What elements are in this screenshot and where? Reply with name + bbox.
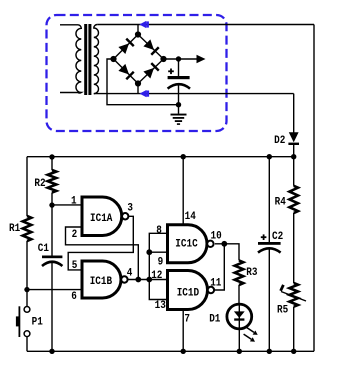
svg-text:IC1C: IC1C [175,239,198,251]
resistor R2 [48,170,57,193]
capacitor C2 [258,242,281,351]
wire: secondary bottom / line to D2 [94,93,294,95]
NAND gate IC1D [168,271,215,310]
wire: pins 8,9 tie [149,233,167,279]
svg-text:5: 5 [72,260,78,272]
wire: bridge minus route to ground node [107,59,179,105]
node: pin 9 junction [146,249,152,255]
svg-text:4: 4 [127,267,133,279]
wire: positive top rail [27,156,294,158]
wire: R5 bottom lead [293,307,295,352]
svg-text:C1: C1 [38,243,50,255]
wire: R3 to LED [238,285,240,305]
node: cap top junction [176,56,181,61]
wire: R2 bottom lead to junction [51,193,53,206]
svg-text:R4: R4 [275,197,287,209]
svg-text:9: 9 [158,257,164,269]
resistor R4 [289,186,298,213]
wire: R4 top lead [293,157,295,186]
wire: R2 top lead [51,157,53,170]
bridge diode bottom-right [143,62,159,78]
NAND gate IC1C [168,225,214,263]
LED D1 [227,304,252,329]
blue arrow marker on top wire [139,21,149,28]
blue arrow marker on bottom wire [140,90,150,97]
svg-text:13: 13 [155,300,167,312]
node: output row junctions [135,277,141,283]
trimmer R5 wiper arrow [281,285,306,301]
node: bridge corners [135,31,141,37]
wire: IC1A output pin 3 [68,216,133,270]
wire: left vertical upper [26,157,28,216]
capacitor C3 filter (plus sign) [168,70,174,72]
node: R1/P1/pin6 junction [24,287,29,292]
wire: pin 14 Vcc [182,157,184,225]
svg-text:2: 2 [72,229,78,241]
transformer T1 core [84,24,87,95]
svg-text:D2: D2 [274,135,285,147]
wire: pin 7 ground [182,310,184,352]
wire: secondary top / AC line to right edge [97,24,314,26]
wire: pin 1 input [52,204,82,206]
capacitor C3 filter [168,59,190,105]
bridge diode bottom-left [118,64,134,80]
NAND gate IC1A [82,197,128,236]
wire: pin 2 feedback route [66,227,139,280]
svg-text:P1: P1 [32,317,44,329]
transformer T1 primary winding [60,25,81,93]
svg-text:10: 10 [211,230,222,242]
svg-text:C2: C2 [272,231,283,243]
svg-text:IC1D: IC1D [177,287,200,299]
resistor R3 [235,260,244,285]
wire: bridge top corner stub [137,25,139,35]
resistor R1 [23,216,32,241]
wire: pin 13 tie [149,280,167,300]
svg-text:1: 1 [71,196,77,208]
wire: R4 to R5 [293,213,295,283]
NAND gate IC1B [82,261,128,298]
node: rail R2 junction [49,154,54,159]
svg-text:11: 11 [210,278,222,290]
wire: junction down to C1 [51,205,53,256]
svg-text:3: 3 [127,202,133,214]
svg-text:14: 14 [185,211,197,223]
svg-text:R2: R2 [34,178,45,190]
wire: bottom ground rail [27,350,314,352]
wire: bridge plus output to arrow [164,58,198,60]
node: pins 10/11 junction [221,241,227,247]
node: bottom rail junctions [49,349,54,354]
svg-text:R3: R3 [246,267,258,279]
wire: left vertical to P1 node [26,241,28,307]
wire: bridge diamond arms [114,35,139,60]
node: R2/C1/pin1 junction [49,202,54,207]
svg-text:12: 12 [151,270,162,282]
node: ground junction [176,102,181,107]
bridge diode top-right [143,39,159,55]
svg-text:IC1A: IC1A [90,213,113,225]
svg-text:IC1B: IC1B [90,276,113,288]
transformer T1 secondary winding [94,25,99,94]
node: rail pin14 junction [181,154,186,159]
diode D2 [288,94,299,157]
svg-text:6: 6 [71,291,77,303]
black output arrow [197,55,206,63]
capacitor C1 [42,256,62,352]
dashed enclosure: power supply module box [47,15,227,131]
wire: LED to ground rail [238,329,240,352]
wire: IC1C output pin 10 to R3 [215,244,239,261]
ground [171,105,187,125]
svg-text:R1: R1 [9,223,21,235]
svg-text:8: 8 [156,225,162,237]
wire: bridge bottom corner stub [137,84,139,94]
bridge diode top-left [118,38,134,54]
wire: IC1D output pin 11 up [214,244,224,290]
wire: IC1B output row to IC1D pin 12 [128,279,168,281]
node: rail R4 junction [291,154,296,159]
trimmer R5 [289,283,298,307]
node: rail C2 junction [267,154,272,159]
svg-text:R5: R5 [277,305,289,317]
pushbutton P1 [16,306,30,351]
wire: C2 top lead [268,157,270,243]
svg-text:7: 7 [184,314,190,326]
wire: pin 6 input [27,289,82,291]
wire: right edge vertical down to bottom rail [313,25,315,352]
LED emission arrows [244,327,258,341]
capacitor C2 (plus sign) [261,236,267,238]
svg-text:D1: D1 [209,314,221,326]
